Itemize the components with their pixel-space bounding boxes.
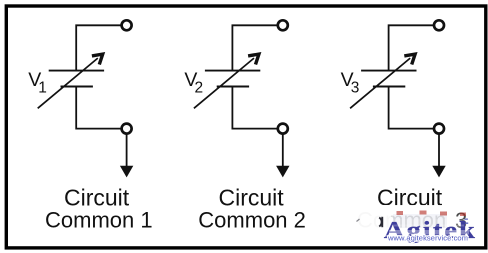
svg-text:3: 3 [351, 80, 360, 97]
svg-text:2: 2 [195, 80, 204, 97]
svg-text:Common 1: Common 1 [45, 207, 153, 232]
svg-text:1: 1 [38, 80, 47, 97]
svg-text:Common 2: Common 2 [198, 207, 306, 232]
svg-text:www.agitekservice.com: www.agitekservice.com [387, 234, 468, 243]
